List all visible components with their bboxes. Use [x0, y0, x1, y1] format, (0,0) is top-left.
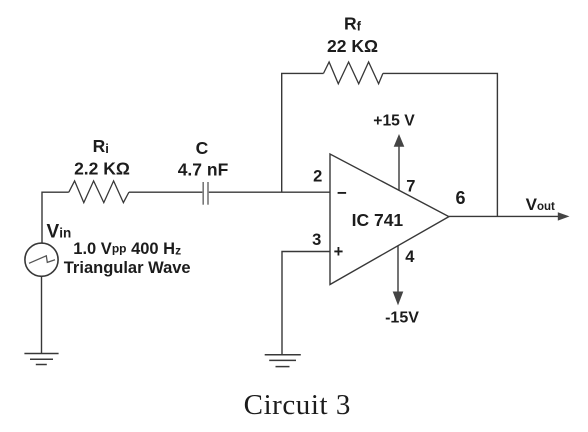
svg-text:1.0 Vpp 400 Hz: 1.0 Vpp 400 Hz: [73, 240, 181, 258]
-15V arrowhead: [393, 292, 404, 306]
svg-text:Rf: Rf: [344, 14, 362, 34]
-15V supply arrow on pin 4: [397, 246, 399, 292]
svg-text:Circuit 3: Circuit 3: [244, 389, 351, 421]
wire: C to op-amp inverting input (pin 2), junction with feedback: [209, 191, 330, 193]
ground (below source): [24, 354, 58, 365]
svg-text:-15V: -15V: [385, 310, 419, 327]
resistor Ri zigzag: [69, 181, 129, 203]
svg-text:+15 V: +15 V: [373, 113, 415, 130]
svg-text:4.7 nF: 4.7 nF: [178, 160, 229, 180]
Vout arrowhead: [558, 212, 570, 220]
triangular wave symbol inside source: [29, 256, 55, 263]
svg-text:Ri: Ri: [93, 136, 109, 156]
resistor Rf zigzag: [324, 62, 383, 84]
+15V arrowhead: [394, 134, 405, 147]
svg-text:−: −: [337, 184, 347, 203]
svg-text:2: 2: [313, 168, 322, 186]
wire: source to ground: [41, 276, 43, 353]
svg-text:4: 4: [405, 248, 415, 266]
wire: Ri to capacitor C: [129, 191, 203, 193]
source Vin circle: [25, 243, 58, 276]
wire: pin 3 non-inverting input: [282, 252, 330, 355]
svg-text:Vout: Vout: [526, 195, 555, 214]
svg-text:IC 741: IC 741: [352, 210, 404, 230]
svg-text:Vin: Vin: [47, 222, 72, 243]
svg-text:2.2 KΩ: 2.2 KΩ: [74, 159, 130, 179]
svg-text:Triangular Wave: Triangular Wave: [64, 259, 191, 277]
op-amp U1 triangle: [330, 154, 449, 285]
wire: input node from source to Ri: [42, 192, 69, 242]
+15V supply arrow on pin 7: [398, 146, 400, 191]
svg-text:6: 6: [455, 188, 465, 208]
svg-text:+: +: [334, 243, 344, 261]
svg-text:C: C: [196, 138, 209, 158]
wire: feedback loop left vertical and top with Rf: [282, 73, 324, 192]
wire: output from op-amp to Vout arrow: [449, 215, 559, 217]
capacitor C plates: [203, 182, 208, 205]
ground (below pin 3): [265, 355, 301, 367]
svg-text:3: 3: [312, 231, 321, 249]
wire: Rf to output node, right vertical of feedback loop: [383, 73, 498, 216]
svg-text:7: 7: [406, 178, 415, 196]
svg-text:22 KΩ: 22 KΩ: [327, 36, 378, 56]
